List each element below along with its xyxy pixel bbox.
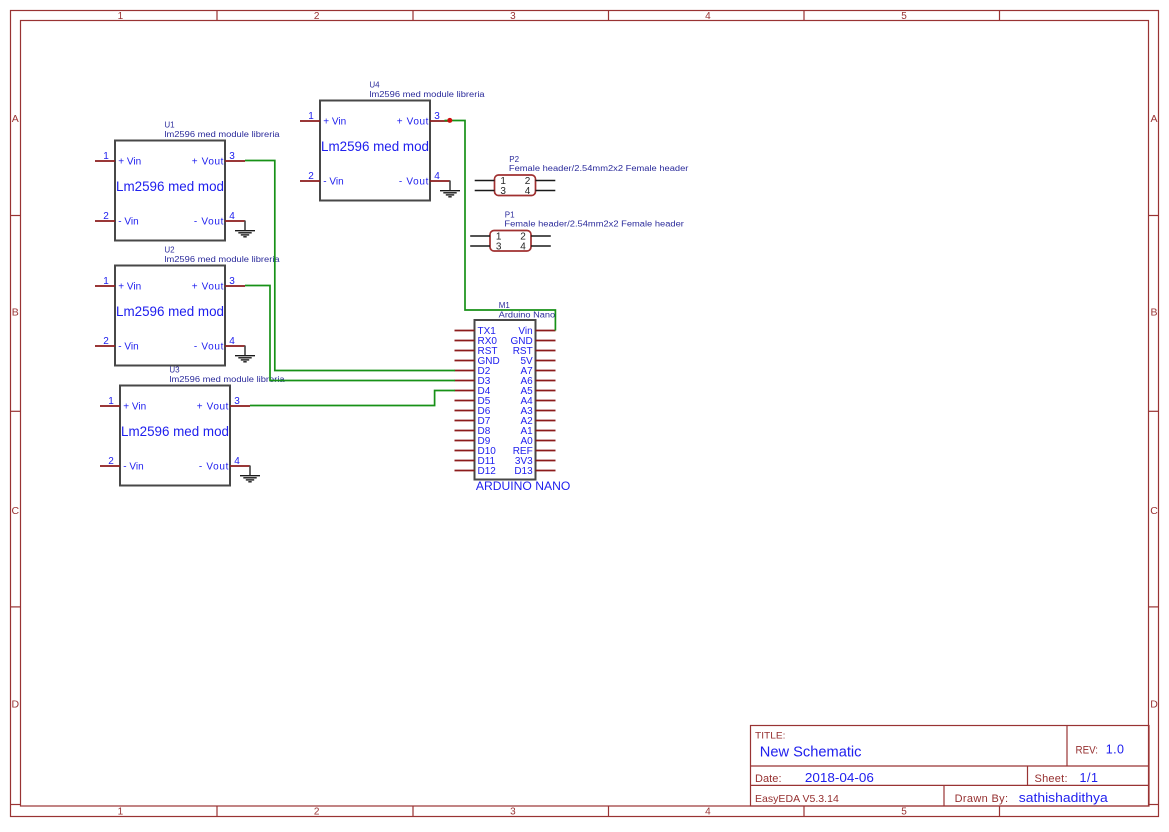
M1 pin 5V (right) [520,356,555,367]
M1 pin RST (right) [513,346,556,357]
svg-text:- Vout: - Vout [194,342,224,353]
svg-text:U3: U3 [169,366,180,375]
M1 pin GND (right) [510,336,555,347]
voltage regulator module U1 (lm2596 med module libreria) [115,121,280,241]
svg-text:+ Vin: + Vin [118,157,141,168]
ground (U1 pin 4) [235,221,255,237]
svg-text:5: 5 [901,11,907,22]
M1 pin TX1 (left) [455,326,497,337]
svg-text:A: A [12,113,19,125]
svg-text:lm2596 med module libreria: lm2596 med module libreria [369,90,485,99]
wire U3 +Vout (pin 3) to M1 D4 [250,391,455,406]
svg-text:+ Vin: + Vin [123,402,146,413]
voltage regulator module U4 (lm2596 med module libreria) [320,81,485,201]
svg-text:3: 3 [229,276,235,287]
U4 pin 4 (- Vout) [399,171,450,188]
svg-text:U4: U4 [369,81,380,90]
U1 pin 2 (- Vin) [95,211,139,228]
svg-text:- Vin: - Vin [123,462,143,473]
female header P2 (2.54mm2x2) [495,155,689,196]
M1 pin D12 (left) [455,466,497,477]
U4 pin 3 (+ Vout) [397,111,450,128]
M1 pin A4 (right) [520,396,555,407]
M1 pin A1 (right) [520,426,555,437]
svg-text:lm2596 med module libreria: lm2596 med module libreria [169,375,285,384]
svg-text:1: 1 [118,11,124,22]
svg-text:- Vin: - Vin [323,177,343,188]
svg-text:1: 1 [118,806,124,817]
voltage regulator module U3 (lm2596 med module libreria) [120,366,285,486]
U4 pin 2 (- Vin) [300,171,344,188]
svg-text:D: D [12,698,20,710]
svg-text:2: 2 [108,456,114,467]
svg-text:A: A [1150,113,1157,125]
svg-text:1: 1 [103,276,109,287]
M1 pin A3 (right) [520,406,555,417]
M1 pin A7 (right) [520,366,555,377]
svg-text:4: 4 [520,241,526,252]
M1 pin D5 (left) [455,396,491,407]
M1 pin D6 (left) [455,406,491,417]
svg-text:New Schematic: New Schematic [760,743,862,760]
M1 pin D10 (left) [455,446,497,457]
wire U4 +Vout (pin 3) to M1 Vin [445,121,556,331]
svg-text:Female header/2.54mm2x2 Female: Female header/2.54mm2x2 Female header [504,220,684,229]
svg-text:C: C [1150,505,1158,517]
svg-text:U1: U1 [164,121,175,130]
svg-text:U2: U2 [164,246,175,255]
M1 pin D11 (left) [455,456,496,467]
svg-text:3: 3 [434,111,440,122]
svg-text:+ Vin: + Vin [118,282,141,293]
M1 pin D13 (right) [514,466,555,477]
svg-text:Lm2596 med mod: Lm2596 med mod [121,423,229,439]
svg-text:3: 3 [229,151,235,162]
svg-text:B: B [12,307,19,319]
M1 pin A2 (right) [520,416,555,427]
svg-text:lm2596 med module libreria: lm2596 med module libreria [164,130,280,139]
svg-text:Drawn By:: Drawn By: [955,793,1008,805]
svg-text:- Vout: - Vout [399,177,429,188]
svg-text:4: 4 [525,186,531,197]
P2 pin 1 [475,176,507,187]
svg-text:3: 3 [510,11,516,22]
M1 pin 3V3 (right) [515,456,556,467]
M1 pin D2 (left) [455,366,491,377]
svg-text:D12: D12 [478,466,497,477]
svg-text:3: 3 [496,241,502,252]
svg-text:sathishadithya: sathishadithya [1019,791,1108,805]
U2 pin 4 (- Vout) [194,336,245,353]
M1 pin A0 (right) [520,436,555,447]
svg-text:+ Vout: + Vout [192,282,224,293]
svg-text:- Vout: - Vout [199,462,229,473]
svg-text:Date:: Date: [755,773,782,785]
svg-text:Arduino Nano: Arduino Nano [499,310,556,319]
svg-text:Lm2596 med mod: Lm2596 med mod [116,303,224,319]
svg-text:P1: P1 [505,210,515,219]
M1 pin REF (right) [513,446,556,457]
M1 pin D8 (left) [455,426,491,437]
M1 pin Vin (right) [518,326,555,337]
U3 pin 3 (+ Vout) [197,396,250,413]
M1 pin RST (left) [455,346,498,357]
svg-text:+ Vout: + Vout [192,157,224,168]
U1 pin 3 (+ Vout) [192,151,245,168]
svg-text:C: C [12,505,20,517]
svg-text:2: 2 [103,336,109,347]
svg-text:EasyEDA V5.3.14: EasyEDA V5.3.14 [755,793,839,805]
svg-text:Lm2596 med mod: Lm2596 med mod [116,178,224,194]
svg-text:- Vout: - Vout [194,217,224,228]
svg-text:+ Vout: + Vout [397,117,429,128]
M1 pin D3 (left) [455,376,491,387]
U2 pin 3 (+ Vout) [192,276,245,293]
P2 pin 3 [475,186,507,197]
svg-text:P2: P2 [509,155,519,164]
svg-text:2018-04-06: 2018-04-06 [805,771,874,785]
U3 pin 1 (+ Vin) [100,396,146,413]
M1 pin D4 (left) [455,386,491,397]
M1 pin D7 (left) [455,416,491,427]
U2 pin 1 (+ Vin) [95,276,141,293]
svg-text:4: 4 [229,336,235,347]
svg-text:Lm2596 med mod: Lm2596 med mod [321,138,429,154]
svg-text:3: 3 [234,396,240,407]
svg-text:- Vin: - Vin [118,217,138,228]
U1 pin 4 (- Vout) [194,211,245,228]
svg-text:REV:: REV: [1076,744,1099,756]
svg-text:D: D [1150,698,1158,710]
svg-text:5: 5 [901,806,907,817]
svg-text:2: 2 [103,211,109,222]
svg-text:Sheet:: Sheet: [1035,773,1068,785]
female header P1 (2.54mm2x2) [490,210,684,251]
svg-text:1.0: 1.0 [1106,742,1124,756]
M1 pin D9 (left) [455,436,491,447]
svg-text:4: 4 [434,171,440,182]
P1 pin 1 [470,231,502,242]
P1 pin 2 [520,231,551,242]
MCU module M1 (Arduino Nano) [475,301,571,493]
M1 pin RX0 (left) [455,336,498,347]
svg-text:4: 4 [705,806,711,817]
U4 pin 1 (+ Vin) [300,111,346,128]
svg-text:D13: D13 [514,466,533,477]
svg-text:4: 4 [705,11,711,22]
ground (U3 pin 4) [240,466,260,482]
M1 pin GND (left) [455,356,500,367]
P2 pin 2 [525,176,556,187]
svg-text:2: 2 [314,806,320,817]
svg-text:- Vin: - Vin [118,342,138,353]
svg-text:Female header/2.54mm2x2 Female: Female header/2.54mm2x2 Female header [509,164,689,173]
svg-text:ARDUINO NANO: ARDUINO NANO [476,479,570,493]
svg-text:1: 1 [108,396,114,407]
svg-text:1: 1 [103,151,109,162]
svg-text:4: 4 [229,211,235,222]
svg-text:B: B [1150,307,1157,319]
P1 pin 3 [470,241,502,252]
P2 pin 4 [525,186,556,197]
svg-text:4: 4 [234,456,240,467]
svg-text:2: 2 [308,171,314,182]
U3 pin 4 (- Vout) [199,456,250,473]
svg-text:3: 3 [510,806,516,817]
svg-text:1/1: 1/1 [1080,771,1099,785]
svg-text:1: 1 [308,111,314,122]
M1 pin A5 (right) [520,386,555,397]
U3 pin 2 (- Vin) [100,456,144,473]
svg-text:+ Vout: + Vout [197,402,229,413]
U2 pin 2 (- Vin) [95,336,139,353]
M1 pin A6 (right) [520,376,555,387]
wire U1 +Vout (pin 3) to M1 D2 [245,161,455,371]
svg-text:3: 3 [500,186,506,197]
junction at U4 pin 3 [447,118,452,123]
ground (U2 pin 4) [235,346,255,362]
ground (U4 pin 4) [440,181,460,197]
U1 pin 1 (+ Vin) [95,151,141,168]
wire U2 +Vout (pin 3) to M1 D3 [245,286,455,381]
svg-text:lm2596 med module libreria: lm2596 med module libreria [164,255,280,264]
svg-text:+ Vin: + Vin [323,117,346,128]
voltage regulator module U2 (lm2596 med module libreria) [115,246,280,366]
svg-text:M1: M1 [499,301,511,310]
svg-text:2: 2 [314,11,320,22]
svg-text:TITLE:: TITLE: [755,730,786,741]
P1 pin 4 [520,241,551,252]
